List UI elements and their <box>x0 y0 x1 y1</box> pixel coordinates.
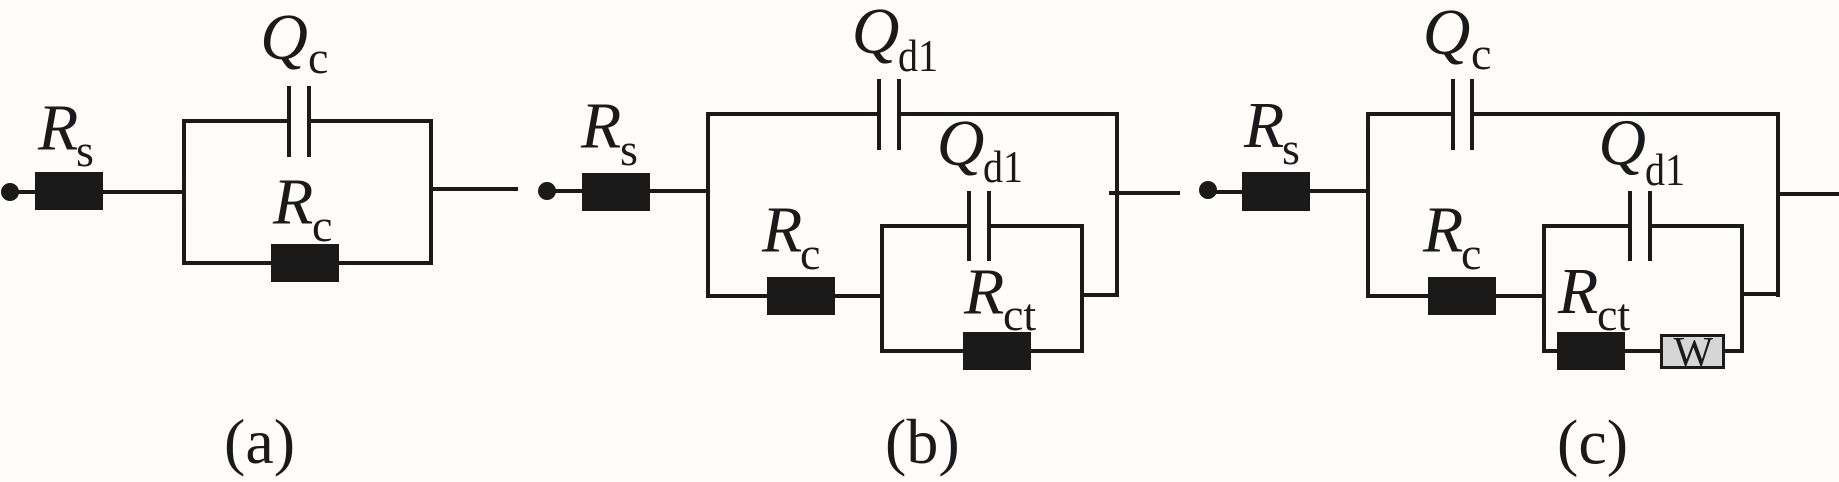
wire inner block to outer right vertical (b) <box>1084 293 1119 297</box>
wire outer top branch right segment (c) <box>1474 112 1780 116</box>
wire top branch right segment (a) <box>311 119 433 123</box>
node input terminal (c) <box>1199 181 1217 199</box>
label Qc (c) <box>1423 0 1492 79</box>
svg-text:Q: Q <box>1423 0 1471 69</box>
svg-text:d1: d1 <box>983 141 1023 192</box>
svg-text:(b): (b) <box>885 406 960 477</box>
wire left vertical of parallel block (a) <box>182 119 186 265</box>
wire inner top branch left segment (b) <box>880 224 967 228</box>
wire bottom branch (a) <box>182 261 433 265</box>
resistor Rct (c) <box>1557 332 1625 370</box>
label Rct (b) <box>963 256 1036 341</box>
label Rct (c) <box>1557 255 1630 340</box>
resistor Rc (c) <box>1428 277 1496 315</box>
label Rc (a) <box>272 166 332 252</box>
svg-text:c: c <box>312 200 332 251</box>
label Rc (c) <box>1422 194 1481 280</box>
label (c) <box>1557 407 1628 478</box>
wire outer top branch left segment (c) <box>1366 112 1451 116</box>
wire Rs to parallel block (a) <box>103 190 184 194</box>
wire input to Rs (c) <box>1208 190 1242 194</box>
wire input to Rs (a) <box>10 190 35 194</box>
resistor Rs (a) <box>35 172 103 210</box>
wire bottom branch to Rc (b) <box>706 294 767 298</box>
label (b) <box>885 406 960 477</box>
label W (c) <box>1674 330 1714 376</box>
capacitor Qd1 inner (b) <box>967 191 991 261</box>
svg-text:c: c <box>308 32 328 83</box>
wire Rc to inner block (b) <box>835 294 884 298</box>
svg-text:c: c <box>1461 228 1481 279</box>
wire right vertical of parallel block (a) <box>429 119 433 265</box>
label Qd1 outer (b) <box>852 0 938 81</box>
wire inner top branch right segment (b) <box>991 224 1084 228</box>
wire outer right vertical (c) <box>1776 112 1780 297</box>
resistor Rc (a) <box>271 244 339 282</box>
node input terminal (a) <box>1 183 19 201</box>
svg-text:Q: Q <box>852 0 900 68</box>
svg-text:Q: Q <box>260 1 308 74</box>
label Rc (b) <box>761 194 820 280</box>
label Qc (a) <box>260 1 328 83</box>
wire inner top branch right segment (c) <box>1652 224 1744 228</box>
resistor Rs (c) <box>1242 172 1310 211</box>
wire output (b) <box>1109 191 1180 195</box>
svg-text:s: s <box>76 125 94 176</box>
svg-text:d1: d1 <box>898 30 938 81</box>
svg-text:ct: ct <box>1003 289 1036 340</box>
label (a) <box>224 406 295 477</box>
label Rs (c) <box>1243 89 1300 174</box>
wire outer right vertical (b) <box>1115 112 1119 297</box>
wire top branch left segment (a) <box>182 119 287 123</box>
svg-text:R: R <box>1557 255 1598 328</box>
label Rs (b) <box>580 90 638 176</box>
wire inner left vertical (b) <box>880 224 884 353</box>
wire output (c) <box>1776 192 1839 196</box>
wire inner bottom branch (c) <box>1542 349 1744 353</box>
wire inner bottom branch (b) <box>880 349 1084 353</box>
capacitor Qc (a) <box>287 86 311 157</box>
wire input to Rs (b) <box>547 189 582 193</box>
svg-text:R: R <box>272 166 313 239</box>
svg-text:Q: Q <box>937 107 985 180</box>
svg-text:c: c <box>1471 28 1491 79</box>
resistor Rct (b) <box>963 332 1031 370</box>
label Qd1 (c) <box>1598 107 1685 196</box>
svg-text:(a): (a) <box>224 406 295 477</box>
wire inner right vertical (b) <box>1080 224 1084 353</box>
svg-text:s: s <box>1282 123 1300 174</box>
svg-text:W: W <box>1674 330 1714 376</box>
svg-text:Q: Q <box>1598 107 1646 180</box>
label Rs (a) <box>37 92 94 177</box>
wire Rs to outer block (c) <box>1310 189 1368 193</box>
wire bottom branch to Rc (c) <box>1366 294 1428 298</box>
wire outer left vertical (b) <box>706 112 710 298</box>
svg-text:s: s <box>620 124 638 175</box>
wire outer left vertical (c) <box>1366 112 1370 298</box>
wire outer top branch left segment (b) <box>706 112 877 116</box>
svg-text:c: c <box>800 228 820 279</box>
svg-text:d1: d1 <box>1645 144 1685 195</box>
Warburg element W (c) <box>1662 336 1724 368</box>
wire inner top branch left segment (c) <box>1542 224 1628 228</box>
resistor Rc (b) <box>767 277 835 315</box>
capacitor Qd1 (c) <box>1628 191 1652 261</box>
wire inner right vertical (c) <box>1740 224 1744 353</box>
wire Rc to inner block (c) <box>1496 294 1546 298</box>
wire Rs to outer block (b) <box>650 189 708 193</box>
wire inner left vertical (c) <box>1542 224 1546 353</box>
svg-text:R: R <box>37 92 78 165</box>
svg-text:R: R <box>580 90 621 163</box>
resistor Rs (b) <box>582 173 650 211</box>
capacitor Qc (c) <box>1451 79 1474 150</box>
svg-text:ct: ct <box>1597 289 1630 340</box>
wire output (a) <box>431 187 518 191</box>
node input terminal (b) <box>538 182 556 200</box>
svg-text:R: R <box>1243 89 1284 162</box>
svg-text:R: R <box>1422 194 1463 267</box>
svg-text:(c): (c) <box>1557 407 1628 478</box>
wire inner block to outer right vertical (c) <box>1744 292 1780 296</box>
capacitor Qd1 outer (b) <box>877 79 901 150</box>
label Qd1 inner (b) <box>937 107 1023 192</box>
svg-text:R: R <box>761 194 802 267</box>
wire outer top branch right segment (b) <box>901 112 1119 116</box>
svg-text:R: R <box>963 256 1004 329</box>
